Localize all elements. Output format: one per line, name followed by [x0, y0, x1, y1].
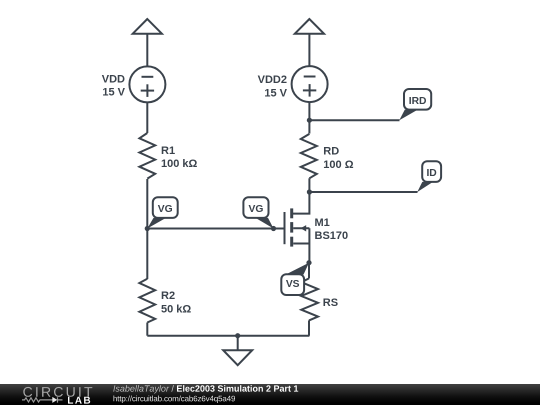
svg-text:BS170: BS170	[315, 230, 349, 242]
resistor RS	[301, 278, 318, 320]
svg-text:IRD: IRD	[409, 96, 427, 107]
transistor M1 body arrow	[301, 225, 307, 231]
transistor M1 gate plate	[284, 212, 286, 244]
ground	[223, 336, 252, 366]
wire node VG horizontal	[147, 228, 273, 230]
svg-text:VG: VG	[249, 204, 264, 215]
junction node VG gate	[271, 226, 276, 231]
power symbol VDD (left)	[133, 19, 162, 66]
transistor M1 source lead	[293, 228, 309, 262]
callout tail ID	[417, 182, 433, 192]
junction ground tap	[235, 333, 240, 338]
transistor M1 body lead	[293, 227, 309, 229]
power symbol VDD2 (right)	[295, 19, 324, 66]
footer credit text	[113, 385, 169, 393]
callout box IRD	[404, 89, 431, 110]
svg-text:RD: RD	[323, 145, 339, 157]
wire RS to bottom rail	[308, 320, 310, 335]
transistor M1 channel bars	[290, 208, 293, 246]
footer url text	[114, 396, 236, 404]
resistor R2	[139, 279, 155, 323]
svg-text:100 Ω: 100 Ω	[323, 159, 353, 171]
svg-text:15 V: 15 V	[264, 87, 287, 99]
wire node VG to R2	[146, 229, 148, 280]
callout box VG left	[153, 197, 178, 218]
transistor M1 drain lead	[293, 192, 309, 214]
wire source to R1	[146, 102, 148, 133]
svg-text:15 V: 15 V	[102, 87, 125, 99]
svg-text:100 kΩ: 100 kΩ	[161, 158, 198, 170]
wire bottom rail	[147, 335, 309, 337]
junction node IRD	[307, 118, 312, 123]
wire node ID horizontal	[309, 191, 417, 193]
callout box ID	[422, 161, 441, 182]
svg-text:R2: R2	[161, 290, 175, 302]
callout box VG gate	[243, 197, 268, 218]
wire R2 to bottom rail	[146, 323, 148, 336]
callout tail IRD	[399, 110, 418, 121]
svg-text:VG: VG	[158, 204, 173, 215]
voltage source VDD 15 V	[129, 66, 165, 102]
logo CIRCUIT LAB	[0, 384, 540, 405]
resistor RD	[301, 134, 317, 178]
wire VDD2 to node IRD	[308, 102, 310, 133]
svg-text:ID: ID	[426, 168, 436, 179]
voltage source VDD2 15 V	[292, 66, 328, 102]
callout box VS	[281, 274, 304, 295]
svg-text:VDD2: VDD2	[258, 74, 287, 86]
callout tail VG left	[147, 218, 166, 229]
svg-text:R1: R1	[161, 145, 175, 157]
footer bar	[0, 384, 540, 405]
svg-text:VS: VS	[286, 279, 300, 290]
wire node IRD horizontal	[309, 119, 399, 121]
svg-text:50 kΩ: 50 kΩ	[161, 304, 191, 316]
svg-text:M1: M1	[315, 217, 330, 229]
callout tail VG gate	[256, 218, 274, 229]
resistor R1	[139, 133, 155, 179]
wire RD to drain node	[308, 178, 310, 192]
junction node ID	[307, 189, 312, 194]
wire R1 to node VG	[146, 179, 148, 229]
svg-text:RS: RS	[323, 297, 338, 309]
wire source node to RS	[308, 263, 310, 279]
callout tail VS	[286, 263, 310, 275]
transistor M1 gate wire	[274, 228, 285, 230]
junction node VG left	[145, 226, 150, 231]
junction node VS	[306, 260, 311, 265]
svg-text:VDD: VDD	[102, 73, 125, 85]
